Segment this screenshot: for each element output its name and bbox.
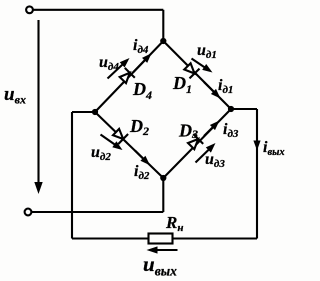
- svg-text:iд3: iд3: [223, 121, 239, 140]
- svg-text:uвх: uвх: [4, 84, 26, 107]
- svg-text:D3: D3: [178, 121, 198, 142]
- svg-text:iвых: iвых: [263, 139, 285, 158]
- wire top vertical to bridge: [162, 10, 164, 41]
- node bottom: [160, 175, 166, 181]
- svg-text:uд4: uд4: [99, 54, 119, 73]
- wire branch D3: [163, 109, 231, 178]
- node left: [92, 109, 98, 115]
- wire bottom rail left of resistor: [72, 237, 149, 239]
- svg-text:iд1: iд1: [218, 77, 233, 96]
- wire bottom input horizontal: [32, 211, 164, 213]
- arrow i_d4: [133, 53, 152, 72]
- resistor R_H: [149, 234, 173, 244]
- arrow u_d1: [192, 59, 213, 73]
- arrow i_d1: [204, 82, 221, 99]
- node right: [228, 106, 234, 112]
- wire branch D4: [95, 41, 163, 112]
- svg-text:Rн: Rн: [165, 213, 183, 234]
- arrow i_d3: [204, 121, 220, 137]
- arrow i_vyx: [253, 141, 260, 151]
- arrow i_d2: [135, 151, 150, 166]
- svg-text:uвых: uвых: [143, 252, 177, 279]
- svg-text:uд3: uд3: [205, 151, 225, 170]
- diode D3: [188, 134, 203, 149]
- svg-text:D1: D1: [172, 73, 192, 96]
- svg-text:uд1: uд1: [197, 42, 217, 61]
- svg-text:uд2: uд2: [91, 144, 111, 163]
- wire bottom rail right of resistor: [173, 237, 258, 239]
- wire top horizontal: [33, 9, 163, 11]
- arrow u_d2: [101, 135, 123, 151]
- terminal top-left: [26, 6, 33, 13]
- wire bottom input vertical to bridge: [162, 178, 164, 212]
- svg-text:iд2: iд2: [134, 163, 150, 182]
- wire branch D2: [95, 112, 163, 178]
- svg-text:D2: D2: [129, 116, 149, 138]
- arrow u_d4: [108, 58, 130, 79]
- diode D2: [113, 129, 128, 144]
- arrow u_vyx: [147, 246, 178, 253]
- diode D1: [184, 63, 199, 78]
- node top: [160, 38, 166, 44]
- wire branch D1: [163, 41, 231, 109]
- svg-text:iд4: iд4: [133, 37, 149, 56]
- arrow u_vx: [34, 20, 42, 194]
- wire right corner to right rail: [231, 108, 257, 110]
- wire right rail vertical: [256, 109, 258, 239]
- wire left rail vertical: [71, 112, 73, 239]
- svg-text:D4: D4: [132, 79, 152, 102]
- wire left corner to left rail: [72, 111, 95, 113]
- terminal bottom-left: [25, 209, 32, 216]
- diode D4: [120, 68, 135, 83]
- arrow u_d3: [196, 143, 216, 163]
